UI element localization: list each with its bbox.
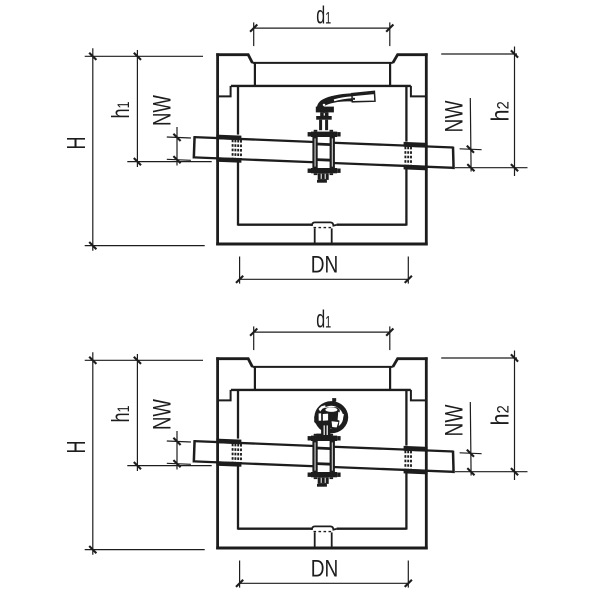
valve stem bbox=[320, 112, 328, 116]
valve body waist bottom bbox=[317, 462, 331, 465]
chamber floor bbox=[238, 528, 312, 530]
lever grip inner edge bbox=[352, 93, 374, 95]
cover rebate left bbox=[218, 390, 231, 401]
pipe top edge bbox=[194, 441, 317, 446]
svg-text:d1: d1 bbox=[316, 305, 331, 333]
valve body waist top bbox=[317, 143, 331, 146]
cover rebate left bbox=[218, 86, 231, 97]
NW right ticks bbox=[467, 450, 474, 457]
chamber bottom slab bbox=[216, 547, 428, 550]
valve bonnet bbox=[321, 422, 330, 437]
lever hub notch bbox=[323, 104, 326, 106]
H bottom extension line bbox=[85, 245, 205, 247]
cover rebate right bbox=[411, 86, 426, 97]
chamber outer wall left bbox=[216, 53, 219, 245]
H bottom extension line bbox=[85, 549, 205, 551]
pipe right end cap bbox=[452, 451, 455, 473]
cover bottom joint bbox=[231, 389, 411, 391]
seal hatching left (dashed) bbox=[232, 140, 234, 158]
gate valve bottom bolt flange bbox=[311, 472, 337, 477]
rim crescent top-left (white) bbox=[319, 405, 326, 411]
handwheel hub bbox=[314, 407, 340, 429]
h1 bottom extension line bbox=[127, 161, 211, 163]
pipe left end cap bbox=[193, 440, 196, 462]
pipe bottom edge bbox=[194, 157, 317, 162]
handwheel rim disc bbox=[314, 401, 348, 433]
cover neck wall left bbox=[254, 63, 256, 86]
svg-text:DN: DN bbox=[311, 252, 339, 279]
svg-text:DN: DN bbox=[311, 556, 339, 583]
dimension NW right line bbox=[469, 98, 472, 172]
h2 top extension line bbox=[441, 357, 517, 359]
dimension NW left line bbox=[176, 431, 178, 470]
dimension H line bbox=[92, 48, 94, 251]
NW right extension lines bbox=[460, 148, 482, 151]
inner wall left bbox=[237, 390, 239, 439]
dimension d1 bbox=[254, 331, 390, 333]
cover top edge right bbox=[393, 55, 428, 63]
pipe bottom edge bbox=[194, 461, 317, 466]
h2 ticks bbox=[511, 354, 518, 361]
NW left ticks bbox=[173, 438, 180, 445]
chamber outer wall left bbox=[216, 357, 219, 549]
cover top edge right bbox=[393, 359, 428, 367]
svg-text:d1: d1 bbox=[316, 1, 331, 29]
valve body waist bottom bbox=[317, 158, 331, 161]
operating lever arm bbox=[317, 93, 353, 109]
H top extension line bbox=[85, 55, 203, 57]
valve stem gland cap bbox=[316, 107, 334, 113]
gate valve left flange bbox=[312, 441, 317, 472]
cover top edge left bbox=[216, 55, 252, 63]
lever arm sleeve gap bbox=[334, 97, 352, 100]
NW right extension lines bbox=[460, 452, 482, 455]
dimension h1 line bbox=[136, 354, 138, 471]
dimension NW left line bbox=[176, 127, 178, 166]
lever grip pin bbox=[353, 98, 355, 100]
gate valve right flange bbox=[330, 137, 335, 168]
h1 ticks bbox=[134, 53, 141, 60]
chamber outer wall right bbox=[425, 357, 428, 549]
drain sump walls bbox=[314, 228, 316, 243]
gate valve right flange bbox=[330, 441, 335, 472]
chamber bottom slab bbox=[216, 243, 428, 246]
cover neck rim bbox=[252, 62, 392, 64]
gate valve left flange bbox=[312, 137, 317, 168]
drain sump lid bbox=[312, 222, 337, 226]
cover neck wall right bbox=[389, 367, 391, 390]
valve packing flange bbox=[316, 116, 332, 120]
H top extension line bbox=[85, 359, 203, 361]
cover neck wall right bbox=[389, 63, 391, 86]
H ticks bbox=[89, 53, 96, 60]
hub slit left (white) bbox=[319, 413, 322, 421]
hub facet right (white) bbox=[338, 412, 344, 422]
svg-text:NW: NW bbox=[441, 100, 469, 132]
wall seal right (mortar) bbox=[404, 446, 428, 452]
handwheel rim inner (white) bbox=[319, 406, 343, 429]
dimension H line bbox=[92, 352, 94, 555]
pipe right end cap bbox=[452, 147, 455, 169]
svg-text:H: H bbox=[61, 137, 91, 150]
H ticks bbox=[89, 357, 96, 364]
h2 bottom extension line bbox=[455, 471, 528, 473]
svg-text:h1: h1 bbox=[107, 406, 135, 423]
inner wall right bbox=[405, 390, 407, 446]
valve body waist top bbox=[317, 447, 331, 450]
h2 top extension line bbox=[441, 53, 517, 55]
handwheel stem nut bbox=[332, 398, 336, 401]
NW right ticks bbox=[467, 146, 474, 153]
hub facet bottom (white) bbox=[332, 421, 339, 427]
inner wall left bbox=[237, 86, 239, 135]
svg-text:H: H bbox=[61, 441, 91, 454]
pipe top edge bbox=[194, 137, 317, 142]
wall seal left (mortar) bbox=[216, 135, 241, 141]
dimension h2 line bbox=[514, 351, 516, 481]
svg-text:NW: NW bbox=[148, 95, 176, 126]
svg-text:NW: NW bbox=[441, 404, 469, 436]
svg-text:h2: h2 bbox=[486, 405, 514, 425]
cover rebate right bbox=[411, 390, 426, 401]
pipe left end cap bbox=[193, 136, 196, 158]
valve yoke columns bbox=[319, 120, 322, 131]
svg-text:NW: NW bbox=[148, 399, 176, 430]
svg-text:h2: h2 bbox=[486, 101, 514, 121]
drain sump walls bbox=[314, 532, 316, 547]
svg-text:h1: h1 bbox=[107, 102, 135, 119]
cover bottom joint bbox=[231, 85, 411, 87]
seal hatching left (dashed) bbox=[232, 444, 234, 462]
cover neck wall left bbox=[254, 367, 256, 390]
gate valve drain foot bbox=[318, 173, 329, 180]
cover neck rim bbox=[252, 366, 392, 368]
wall seal left (mortar) bbox=[216, 439, 241, 445]
h1 bottom extension line bbox=[127, 465, 211, 467]
gate valve top bolt flange bbox=[311, 436, 337, 441]
drain sump lid bbox=[312, 526, 337, 530]
cover top edge left bbox=[216, 359, 252, 367]
dimension h1 line bbox=[136, 50, 138, 167]
h2 ticks bbox=[511, 50, 518, 57]
drain sump grate (dashed) bbox=[314, 531, 332, 533]
chamber floor bbox=[238, 224, 312, 226]
hub facet top (white) bbox=[325, 408, 337, 412]
valve chamber with lever-operated gate valve (top figure) bbox=[61, 1, 528, 283]
dimension h2 line bbox=[514, 47, 516, 177]
NW left extension lines bbox=[167, 137, 191, 138]
h2 bottom extension line bbox=[455, 167, 528, 169]
wall seal right (mortar) bbox=[404, 142, 428, 148]
inner wall right bbox=[405, 86, 407, 142]
NW left ticks bbox=[173, 134, 180, 141]
seal hatching right (dashed) bbox=[404, 147, 406, 165]
dimension DN bbox=[240, 278, 409, 280]
dimension NW right line bbox=[469, 402, 472, 476]
gate valve top bolt flange bbox=[311, 132, 337, 137]
valve chamber with handwheel gate valve (bottom figure) bbox=[61, 305, 528, 587]
gate valve bottom bolt flange bbox=[311, 168, 337, 173]
h1 ticks bbox=[134, 357, 141, 364]
dimension d1 bbox=[254, 27, 390, 29]
seal hatching right (dashed) bbox=[404, 451, 406, 469]
lever grip bbox=[352, 91, 375, 102]
hub facet left (white) bbox=[323, 414, 328, 421]
gate valve drain foot bbox=[318, 477, 329, 484]
NW left extension lines bbox=[167, 441, 191, 442]
chamber outer wall right bbox=[425, 53, 428, 245]
drain sump grate (dashed) bbox=[314, 227, 332, 229]
dimension DN bbox=[240, 582, 409, 584]
